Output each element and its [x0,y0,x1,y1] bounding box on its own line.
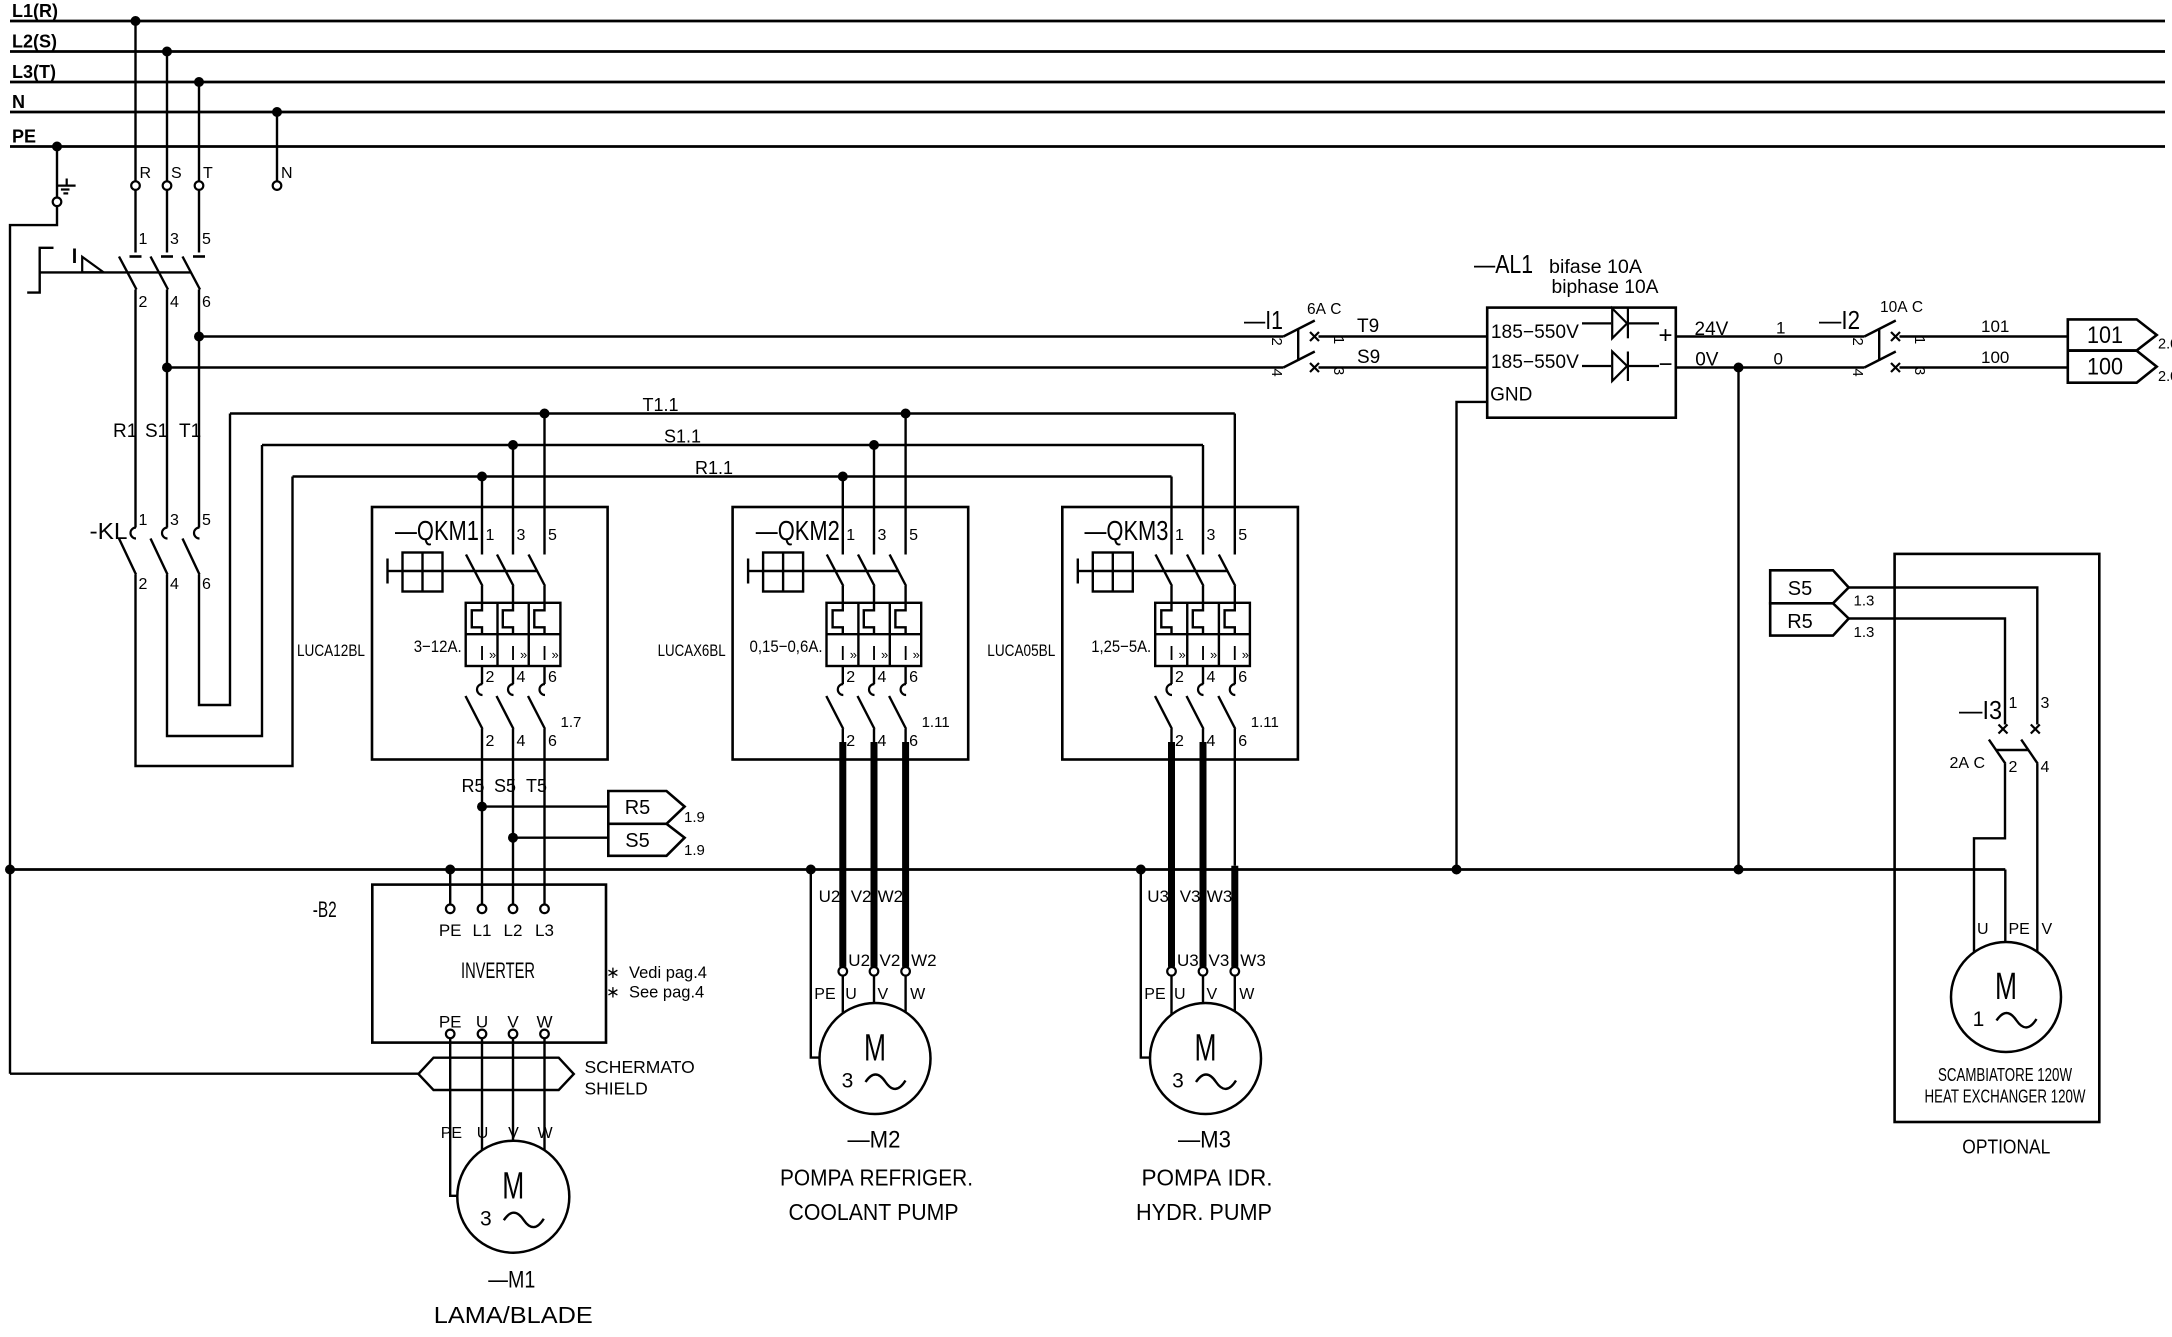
wire shield drain [10,1072,418,1074]
svg-text:L1(R): L1(R) [12,1,58,21]
svg-text:6: 6 [909,733,918,750]
wire 100 [1900,366,2068,368]
svg-text:4: 4 [517,669,526,686]
breaker I2 pole 1-2 fixed contact [1891,332,1900,341]
svg-text:V3: V3 [1209,951,1230,970]
wire 101 [1900,335,2068,337]
svg-text:M: M [1195,1028,1217,1070]
wire M1 W [543,1043,545,1151]
svg-text:1.9: 1.9 [684,842,705,859]
wire S pole to breaker I1 [167,366,1283,368]
wire PE to motor M3 [1141,870,1151,1058]
node QKM2 feed at x=874 [869,440,879,450]
svg-text:COOLANT PUMP: COOLANT PUMP [789,1199,959,1225]
OPTIONAL enclosure box [1895,554,2100,1122]
svg-text:2.0: 2.0 [2158,369,2172,385]
svg-text:-B2: -B2 [313,897,337,922]
wire S1.1 drop to QKM3 pole 3 [1202,445,1204,555]
svg-text:T9: T9 [1357,316,1379,337]
svg-text:—AL1: —AL1 [1474,249,1533,279]
motor -M4 heat exchanger [1951,942,2061,1052]
wire R1 loop to R1.1 [136,477,293,767]
svg-text:U2: U2 [819,887,841,906]
svg-text:3−12A.: 3−12A. [414,637,462,656]
diode D2 [1582,365,1611,367]
contactor KL pole 5-6 fixed contact arc [194,528,200,539]
starter -QKM3 enclosure box [1062,507,1298,760]
wire QKM2 pole 3 to overload [873,586,875,603]
wire QKM1 pole 4 overload to isolator [512,666,514,684]
wire S5 to I3 pole 3 [1849,588,2038,725]
isolator QKM1 pole 2 contact arc [477,684,483,695]
wire QKM2 pole 2 overload to isolator [842,666,844,684]
wire S to switch [166,190,168,253]
svg-text:100: 100 [2087,354,2123,381]
wire GND to PE bus [1457,402,1488,870]
svg-text:2: 2 [139,576,148,593]
svg-text:3: 3 [480,1208,492,1231]
power rail PE [10,145,2165,148]
svg-text:1: 1 [1175,527,1184,544]
main switch pole 1-2 fixed contact [130,255,142,258]
contactor QKM1 coil symbol [386,559,388,584]
wire feed drop QKM1 [543,414,545,555]
terminal R [131,181,140,190]
svg-text:W2: W2 [878,887,904,906]
svg-text:∗ Vedi pag.4: ∗ Vedi pag.4 [606,964,707,982]
svg-text:1: 1 [486,527,495,544]
main switch I handle triangle [82,257,104,273]
diode D1 [1582,322,1611,324]
isolator QKM1 pole 2 blade [466,696,483,729]
overload heater QKM1 pole 6 [534,603,544,634]
flag 100 to page 2.0 [2068,351,2157,383]
isolator QKM3 pole 6 blade [1218,696,1235,729]
svg-text:PE: PE [1144,986,1165,1003]
breaker I1 pole 3-4 fixed contact [1310,363,1319,372]
svg-text:2: 2 [2009,759,2018,776]
overload heater QKM2 pole 2 [833,603,843,634]
svg-text:S1: S1 [145,421,168,442]
svg-text:4: 4 [878,733,887,750]
svg-text:PE: PE [439,921,462,940]
wire 24V output [1676,335,1865,337]
PE bus [10,868,2005,871]
svg-text:0V: 0V [1695,350,1719,371]
svg-text:I: I [1232,643,1238,665]
breaker I3 pole 1 blade [1989,740,2006,764]
wire T1 loop to T1.1 [199,414,230,706]
svg-text:—I3: —I3 [1959,695,2002,725]
svg-text:L2: L2 [504,921,523,940]
terminal T [195,181,204,190]
wire QKM3 pole 6 overload to isolator [1234,666,1236,684]
svg-text:LUCA12BL: LUCA12BL [297,641,365,660]
wire QKM1 pole 5 to overload [543,586,545,603]
svg-text:3: 3 [170,512,179,529]
thermal overload QKM1 block [466,603,561,666]
power rail L1(R) [10,20,2165,23]
svg-text:biphase 10A: biphase 10A [1552,277,1659,298]
flag 101 to page 2.0 [2068,319,2157,350]
wire PE to inverter [449,870,451,905]
contactor QKM3 coil symbol [1077,559,1079,584]
wire inverter output U [481,1038,483,1042]
contactor QKM2 actuating link [803,570,899,572]
svg-text:PE: PE [441,1125,462,1142]
cable U3 [1170,729,1172,742]
svg-text:2: 2 [1849,337,1866,345]
inverter input terminal L1 [478,905,487,914]
svg-text:4: 4 [1849,368,1866,376]
node R5 branch [477,802,487,812]
inverter input terminal PE [446,905,455,914]
svg-text:»: » [489,647,496,662]
terminal W3 [1231,967,1240,976]
isolator QKM2 pole 6 contact arc [901,684,907,695]
svg-text:5: 5 [1238,527,1247,544]
wire QKM3 pole 5 to overload [1234,586,1236,603]
isolator QKM3 pole 4 blade [1187,696,1204,729]
svg-text:HEAT EXCHANGER 120W: HEAT EXCHANGER 120W [1925,1087,2086,1107]
svg-text:2: 2 [1268,337,1285,345]
power supply AL1 box [1487,308,1676,418]
svg-text:»: » [520,647,527,662]
isolator QKM2 pole 4 contact arc [869,684,875,695]
svg-text:L3(T): L3(T) [12,62,56,82]
svg-text:W: W [910,986,926,1003]
svg-text:LAMA/BLADE: LAMA/BLADE [434,1302,593,1328]
wire PE bus to motor M4 PE [2004,870,2006,943]
isolator QKM3 pole 4 contact arc [1198,684,1204,695]
wire QKM1 pole 1 to overload [481,586,483,603]
svg-text:V3: V3 [1180,887,1201,906]
wire motor M2 U [842,976,844,1014]
node PE bus corner [5,865,15,875]
contactor QKM2 pole 5 blade [890,555,907,587]
net S1.1 line [262,444,1203,446]
breaker I1 pole 1-2 fixed contact [1310,332,1319,341]
breaker I2 pole 3-4 fixed contact [1891,363,1900,372]
svg-text:S5: S5 [1788,578,1812,600]
svg-text:S1.1: S1.1 [664,427,701,447]
svg-text:SCHERMATO: SCHERMATO [585,1057,695,1077]
svg-text:»: » [1242,647,1249,662]
svg-text:5: 5 [548,527,557,544]
node PE bus to 0V [1734,865,1744,875]
wire M1 PE [450,1043,457,1196]
svg-text:W3: W3 [1240,951,1266,970]
breaker I3 pole 3 blade [2021,740,2038,764]
svg-text:R: R [140,165,152,182]
node on L2 rail (S tap) [162,47,172,57]
starter -QKM1 enclosure box [372,507,608,760]
svg-text:I: I [479,643,485,665]
node QKM1 feed at x=482 [477,472,487,482]
node QKM2 feed at x=905.6 [901,409,911,419]
svg-text:V: V [1207,986,1218,1003]
motor -M3 [1150,1003,1261,1114]
cable U2 [842,729,844,742]
wire motor M3 W [1234,976,1236,1012]
terminal V2 [870,967,879,976]
ground symbol [66,179,68,186]
wire feed drop QKM1 [512,445,514,555]
svg-text:1: 1 [1973,1008,1985,1031]
isolator QKM2 pole 2 blade [826,696,843,729]
svg-text:2.0: 2.0 [2158,337,2172,353]
inverter input terminal L2 [509,905,518,914]
svg-text:3: 3 [517,527,526,544]
svg-text:4: 4 [1268,368,1285,376]
breaker I2 pole 3-4 blade [1864,352,1895,368]
svg-text:101: 101 [1981,317,2009,336]
svg-text:1.11: 1.11 [922,714,950,731]
svg-text:INVERTER: INVERTER [461,958,535,983]
wire S drop from rail [166,52,168,182]
svg-text:6: 6 [548,669,557,686]
wire R5 to I3 pole 1 [1849,619,2005,725]
contactor QKM1 pole 3 blade [497,555,514,587]
wire T9 [1319,335,1488,337]
wire motor M3 V [1202,976,1204,1003]
svg-text:1.7: 1.7 [561,714,582,731]
svg-text:1.3: 1.3 [1854,624,1875,641]
main switch I designator mark [73,249,76,264]
svg-text:U2: U2 [848,951,870,970]
isolator QKM2 pole 4 blade [858,696,875,729]
svg-text:W3: W3 [1207,887,1233,906]
main switch pole 5-6 blade [183,257,201,290]
svg-text:V: V [508,1125,519,1142]
svg-text:HYDR. PUMP: HYDR. PUMP [1136,1199,1272,1225]
net T1.1 line [230,412,1235,414]
terminal PE [53,198,62,207]
svg-text:3: 3 [1172,1070,1184,1093]
svg-text:L2(S): L2(S) [12,32,57,52]
svg-text:I: I [1200,643,1206,665]
node PE bus to motor M2 [806,865,816,875]
svg-text:S5: S5 [494,776,516,796]
svg-text:I: I [542,643,548,665]
svg-text:—M1: —M1 [488,1267,535,1294]
svg-text:U: U [1977,921,1989,938]
svg-text:6: 6 [202,294,211,311]
svg-text:2: 2 [486,733,495,750]
power rail L2(S) [10,50,2165,53]
inverter box [372,885,606,1043]
wire PE drop [56,147,58,198]
wire 0V output [1676,366,1865,368]
wire inverter output PE [449,1038,451,1042]
svg-text:+: + [1658,322,1672,349]
net R1.1 line [293,475,1172,477]
wire I3 pole1 to motor U [1974,764,2005,953]
svg-text:R5: R5 [1787,611,1813,633]
breaker I1 pole 1-2 blade [1283,321,1314,337]
main switch pole 1-2 blade [119,257,137,290]
svg-text:3: 3 [2041,695,2050,712]
node T tap to I1 [194,332,204,342]
wire QKM1 pole 2 overload to isolator [481,666,483,684]
wire R1.1 drop to QKM3 pole 1 [1170,477,1172,555]
wire feed drop QKM1 [481,477,483,555]
svg-text:3: 3 [170,231,179,248]
svg-text:U3: U3 [1147,887,1169,906]
svg-text:SCAMBIATORE 120W: SCAMBIATORE 120W [1938,1065,2072,1085]
svg-text:bifase 10A: bifase 10A [1549,257,1642,278]
svg-text:LUCAX6BL: LUCAX6BL [658,641,726,660]
wire QKM2 pole 4 overload to isolator [873,666,875,684]
svg-text:W: W [537,1125,553,1142]
wire S5 [512,729,514,905]
svg-text:185−550V: 185−550V [1491,352,1579,373]
svg-text:101: 101 [2087,322,2123,349]
breaker I2 tie bar [1878,329,1880,361]
isolator QKM3 pole 6 contact arc [1230,684,1235,695]
svg-text:V2: V2 [880,951,901,970]
wire M1 V [512,1043,514,1141]
svg-text:—I1: —I1 [1244,305,1283,335]
isolator QKM2 pole 6 blade [889,696,906,729]
svg-text:W2: W2 [911,951,937,970]
wire R to switch [134,190,136,253]
svg-text:U: U [845,986,857,1003]
wire N drop from rail [276,112,278,181]
contactor KL pole 3-4 blade [151,539,168,575]
svg-text:I: I [1169,643,1175,665]
wire R1 pole [134,290,136,528]
svg-text:GND: GND [1490,385,1532,406]
node S tap to I1 [162,363,172,373]
svg-text:T1: T1 [179,421,201,442]
isolator QKM3 pole 2 blade [1155,696,1172,729]
svg-text:—I2: —I2 [1819,305,1860,335]
cable W3 [1234,729,1236,866]
svg-text:PE: PE [814,986,835,1003]
terminal W2 [901,967,910,976]
svg-text:R1.1: R1.1 [695,458,733,478]
svg-text:SHIELD: SHIELD [585,1079,648,1099]
node on L3 rail (T tap) [194,77,204,87]
breaker I3 pole 1 fixed contact [1999,725,2008,734]
svg-text:I: I [871,643,877,665]
main switch I operator link [40,271,192,273]
svg-text:6: 6 [909,669,918,686]
wire QKM2 pole 5 to overload [904,586,906,603]
svg-text:R5: R5 [462,776,485,796]
svg-text:2: 2 [846,733,855,750]
overload heater QKM3 pole 4 [1193,603,1203,634]
svg-text:I: I [510,643,516,665]
svg-text:—QKM2: —QKM2 [756,515,840,546]
svg-text:S5: S5 [625,830,649,852]
svg-text:∗ See pag.4: ∗ See pag.4 [606,984,704,1002]
svg-text:4: 4 [1207,733,1216,750]
svg-text:1: 1 [139,231,148,248]
contactor QKM3 actuating link [1133,570,1228,572]
power rail N [10,111,2165,114]
flag R5 to page 1.9 [608,791,684,824]
wire inverter output V [512,1038,514,1042]
svg-text:100: 100 [1981,348,2009,367]
node on PE rail (earth tap) [52,142,62,152]
overload heater QKM1 pole 4 [503,603,513,634]
svg-text:»: » [913,647,920,662]
svg-text:2: 2 [139,294,148,311]
thermal overload QKM2 block [827,603,922,666]
wire QKM1 pole 3 to overload [512,586,514,603]
svg-text:185−550V: 185−550V [1491,322,1579,343]
overload heater QKM2 pole 4 [864,603,874,634]
isolator QKM3 pole 2 contact arc [1167,684,1173,695]
wire QKM2 pole 6 overload to isolator [904,666,906,684]
svg-text:—M2: —M2 [848,1127,901,1154]
node QKM1 feed at x=544.5 [540,409,550,419]
contactor QKM2 pole 1 blade [827,555,844,587]
svg-text:1: 1 [139,512,148,529]
svg-text:T1.1: T1.1 [643,395,679,415]
isolator QKM1 pole 4 contact arc [508,684,513,695]
svg-text:3: 3 [878,527,887,544]
wire motor M2 V [873,976,875,1003]
contactor QKM2 coil symbol [747,559,749,584]
inverter input terminal L3 [540,905,549,914]
svg-text:LUCA05BL: LUCA05BL [987,641,1055,660]
wire T1.1 drop to QKM3 pole 5 [1234,414,1236,555]
isolator QKM1 pole 6 blade [528,696,545,729]
node QKM1 feed at x=513 [508,440,518,450]
breaker I1 tie bar [1297,329,1299,361]
wire T pole to breaker I1 [199,335,1283,337]
wire QKM2 pole 1 to overload [842,586,844,603]
breaker I3 pole 3 fixed contact [2031,725,2040,734]
svg-text:»: » [552,647,559,662]
svg-text:POMPA IDR.: POMPA IDR. [1142,1165,1273,1191]
main switch pole 3-4 fixed contact [161,255,173,258]
wire S9 [1319,366,1488,368]
contactor QKM1 pole 1 blade [466,555,483,587]
node PE bus to motor M3 [1136,865,1146,875]
contactor KL pole 5-6 blade [183,539,200,575]
svg-text:L1: L1 [473,921,492,940]
svg-text:3: 3 [842,1070,854,1093]
svg-text:2: 2 [486,669,495,686]
node on N rail (N tap) [272,107,282,117]
svg-text:—QKM3: —QKM3 [1085,515,1169,546]
svg-text:1.3: 1.3 [1854,593,1875,610]
svg-text:1: 1 [846,527,855,544]
wire QKM3 pole 2 overload to isolator [1170,666,1172,684]
svg-text:2A C: 2A C [1950,755,1986,772]
cable W2 [904,729,906,742]
svg-text:2: 2 [846,669,855,686]
shielded cable symbol [418,1058,573,1090]
main switch I operator bracket [27,248,53,293]
svg-text:M: M [1995,966,2017,1008]
svg-text:4: 4 [170,294,179,311]
svg-text:U3: U3 [1177,951,1199,970]
node PE bus to inverter [445,865,455,875]
svg-text:10A C: 10A C [1880,299,1923,316]
wire I3 pole3 to motor V [2036,764,2038,951]
isolator QKM2 pole 2 contact arc [838,684,844,695]
svg-text:I: I [840,643,846,665]
wire T5 [543,729,545,905]
svg-text:2: 2 [1175,669,1184,686]
svg-text:4: 4 [517,733,526,750]
motor -M1 [457,1141,569,1253]
